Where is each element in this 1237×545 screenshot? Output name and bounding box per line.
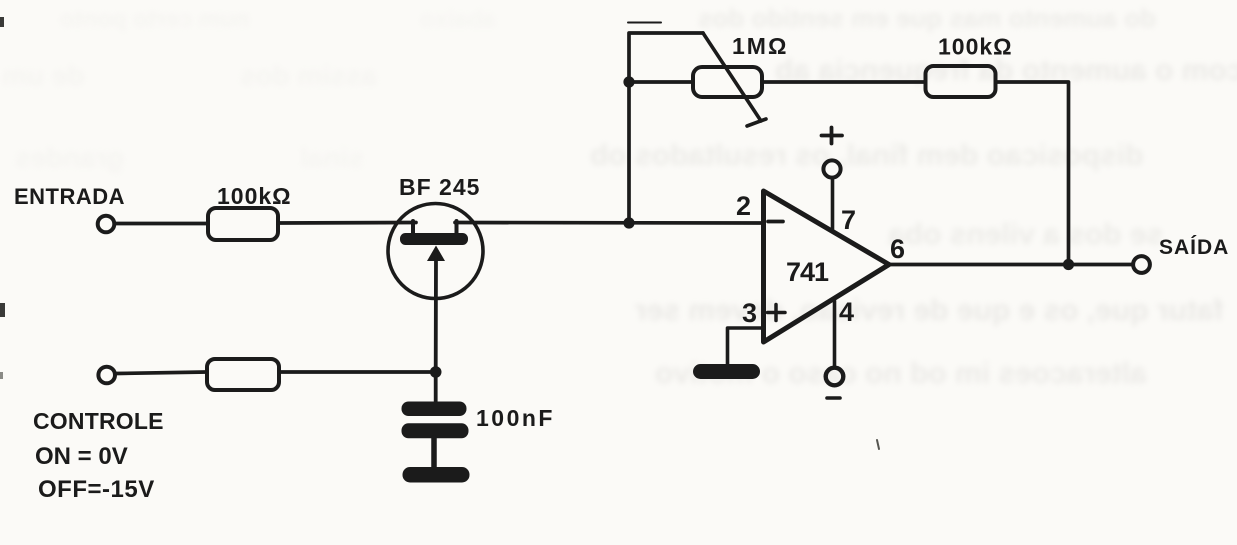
svg-text:ENTRADA: ENTRADA bbox=[14, 184, 125, 209]
svg-text:7: 7 bbox=[841, 205, 856, 235]
svg-text:6: 6 bbox=[890, 234, 905, 264]
svg-text:1MΩ: 1MΩ bbox=[732, 33, 788, 59]
svg-text:OFF=-15V: OFF=-15V bbox=[38, 476, 155, 503]
svg-text:4: 4 bbox=[839, 297, 854, 327]
svg-text:100kΩ: 100kΩ bbox=[938, 34, 1013, 60]
svg-text:SAÍDA: SAÍDA bbox=[1159, 236, 1229, 259]
svg-text:100kΩ: 100kΩ bbox=[217, 183, 292, 209]
svg-text:ON = 0V: ON = 0V bbox=[35, 443, 128, 470]
svg-text:2: 2 bbox=[736, 191, 751, 221]
svg-text:100nF: 100nF bbox=[476, 405, 555, 431]
svg-text:741: 741 bbox=[786, 257, 829, 287]
svg-text:3: 3 bbox=[742, 298, 757, 328]
svg-text:CONTROLE: CONTROLE bbox=[33, 408, 164, 434]
svg-text:BF 245: BF 245 bbox=[399, 174, 480, 200]
